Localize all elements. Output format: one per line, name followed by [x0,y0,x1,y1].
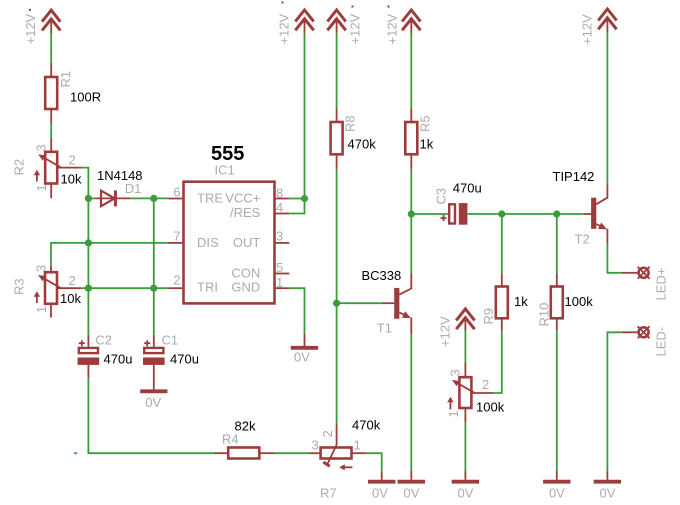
pad LED- [622,326,650,338]
svg-text:TIP142: TIP142 [553,169,595,184]
svg-text:R1: R1 [58,71,73,88]
junction node A3 pin2 row [85,285,92,292]
svg-text:R5: R5 [418,115,433,132]
svg-text:1k: 1k [420,137,434,152]
ground G5 R6 [452,471,479,482]
resistor R4 [214,448,275,459]
svg-text:+12V: +12V [277,13,292,44]
wire node D to T1 base [337,302,383,304]
svg-text:LED-: LED- [654,327,669,357]
svg-text:5: 5 [276,260,283,275]
resistor R9 [496,274,508,331]
svg-text:0V: 0V [549,486,565,501]
svg-text:1: 1 [34,184,49,191]
svg-text:0V: 0V [294,350,310,365]
svg-text:1k: 1k [514,294,528,309]
wire IC pin1 to ground G1 [289,288,304,333]
wire LED- pad to ground G6 [607,332,622,470]
svg-text:1: 1 [354,438,361,453]
svg-text:R3: R3 [12,278,27,295]
svg-text:CON: CON [231,266,260,281]
svg-text:C1: C1 [162,333,179,348]
svg-text:7: 7 [173,229,180,244]
wire node B column down to C1 [153,198,155,334]
wire node F down to R9 [501,214,503,274]
resistor R1 [45,63,57,123]
wire node E to T1 collector [410,214,412,274]
transistor T1 BC338 [383,274,412,335]
origin dot P2 [282,2,284,4]
wire node A to D1 anode [88,197,96,199]
potentiometer R6 100k [447,363,493,422]
svg-text:8: 8 [276,186,283,201]
power +12V P3 [327,10,345,33]
wire R10 bottom to ground G7 [556,331,558,471]
svg-text:3: 3 [276,229,283,244]
wire stub near C2 rail [74,452,77,454]
svg-text:1: 1 [446,410,461,417]
svg-text:GND: GND [231,280,260,295]
svg-text:100R: 100R [70,90,101,105]
potentiometer R2 [34,138,82,198]
power +12V P2 [295,10,313,33]
svg-text:4: 4 [276,200,283,215]
svg-text:/RES: /RES [230,205,261,220]
wire node E to C3 plus [411,213,449,215]
transistor T2 TIP142 [584,184,607,244]
svg-text:1: 1 [34,306,49,313]
svg-text:0V: 0V [372,486,388,501]
svg-text:3: 3 [448,369,463,376]
trimpot R7 [309,423,367,470]
svg-text:6: 6 [173,185,180,200]
svg-text:82k: 82k [235,418,256,433]
svg-text:D1: D1 [125,181,142,196]
potentiometer R3 [34,266,82,318]
wire node G down to R10 [556,214,558,274]
svg-text:470u: 470u [170,352,199,367]
wire C2 minus down and right to R4 [88,378,213,453]
junction node B1 D1 cathode [150,195,157,202]
svg-text:470k: 470k [348,137,377,152]
svg-text:+12V: +12V [348,13,363,44]
svg-text:TRE: TRE [197,191,223,206]
svg-text:BC338: BC338 [362,268,402,283]
ground G3 R7 pin1 [368,472,395,482]
svg-text:0V: 0V [600,486,616,501]
wire IC pin4 to node C [289,199,304,214]
ground G2 C1 [140,389,167,393]
svg-text:3: 3 [34,144,49,151]
power +12V P4 [402,10,420,33]
wire R2 pin2 down to node A column [82,168,89,335]
svg-text:2: 2 [320,430,335,437]
wire D1 cathode to node B to IC pin6 [130,197,169,199]
wire C3 minus to T2 base [468,213,585,215]
svg-text:R4: R4 [222,432,239,447]
junction node D T1 base [333,300,340,307]
svg-text:VCC+: VCC+ [225,191,260,206]
svg-text:10k: 10k [61,171,82,186]
ground G1 IC pin1 [291,333,318,347]
svg-text:2: 2 [69,273,76,288]
wire P6 to trimpot pin3 [464,331,466,363]
svg-text:+12V: +12V [385,13,400,44]
svg-text:R7: R7 [320,486,337,501]
svg-text:555: 555 [211,143,244,165]
wire R4 to R7 pin3 [275,452,309,454]
svg-text:2: 2 [69,153,76,168]
wire IC pin8 to node C [289,198,304,200]
wire R3 pin3 row to IC pin7 [51,243,169,266]
svg-text:100k: 100k [565,294,594,309]
junction node G R10 top [553,210,560,217]
origin dot P3 [352,6,354,8]
junction node C pin8-pin4 [301,195,308,202]
svg-text:+12V: +12V [580,14,595,45]
wire R7 pin1 to ground G3 [366,453,381,472]
wire R8 down through node D to R7 pin2 [336,169,338,423]
svg-text:1: 1 [276,275,283,290]
ground G7 R10 [543,471,570,482]
svg-text:R10: R10 [537,303,552,327]
svg-text:470u: 470u [104,352,133,367]
svg-text:10k: 10k [60,291,81,306]
origin dot P4 [388,6,390,8]
svg-text:C2: C2 [95,333,112,348]
ground G6 LED- [594,471,621,482]
svg-text:2: 2 [482,377,489,392]
svg-text:470u: 470u [453,181,482,196]
capacitor C3 [441,203,468,225]
wire P3 to R8 [336,33,338,109]
wire T2 emitter to LED+ pad [607,244,622,273]
svg-text:R8: R8 [343,115,358,132]
svg-text:0V: 0V [458,486,474,501]
diode D1 [96,190,130,206]
svg-text:LED+: LED+ [654,268,669,301]
wire R5 to node E [410,169,412,214]
wire P4 to R5 [410,33,412,109]
wire R1 to R2 pin3 [50,123,52,138]
svg-text:1N4148: 1N4148 [97,168,143,183]
junction node A2 pin7 row [85,239,92,246]
resistor R10 [551,274,563,331]
svg-text:2: 2 [173,273,180,288]
svg-text:T2: T2 [575,232,590,247]
svg-text:R9: R9 [481,308,496,325]
junction node E R5-C3 [408,210,415,217]
svg-text:100k: 100k [476,400,505,415]
junction node A1 R2-D1 [85,195,92,202]
svg-text:+12V: +12V [23,13,38,44]
capacitor C2 [78,335,100,379]
svg-text:470k: 470k [352,418,381,433]
wire R3 pin2 row to IC pin2 [82,287,169,289]
svg-text:0V: 0V [404,486,420,501]
svg-text:DIS: DIS [197,235,219,250]
svg-text:+12V: +12V [438,316,453,347]
op-amp U1 555 IC box [169,182,290,304]
wire P2 down to IC pin8 node [304,33,306,199]
power +12V P6 [456,309,474,331]
power +12V P5 [598,9,616,32]
ground G4 T1 emitter [398,471,425,482]
resistor R5 [405,109,417,169]
svg-text:OUT: OUT [233,235,261,250]
svg-text:T1: T1 [377,321,392,336]
power +12V P1 [42,10,60,33]
wire P1 to R1 [50,33,52,63]
svg-text:3: 3 [34,265,49,272]
capacitor C1 [143,335,165,390]
svg-text:C3: C3 [434,188,449,205]
pad LED+ [622,267,650,279]
junction node F R9 top [498,210,505,217]
junction node B2 C1 top [150,285,157,292]
svg-text:0V: 0V [145,395,161,410]
svg-text:TRI: TRI [197,280,218,295]
wire R9 bottom to trimpot pin2 [493,331,502,393]
origin dot P1 [29,9,31,11]
wire T1 emitter to ground G4 [410,334,412,471]
resistor R8 [331,109,343,169]
wire trimpot pin1 to ground G5 [464,422,466,470]
svg-text:3: 3 [312,438,319,453]
svg-text:R2: R2 [12,159,27,176]
wire P5 to T2 collector [606,32,608,184]
